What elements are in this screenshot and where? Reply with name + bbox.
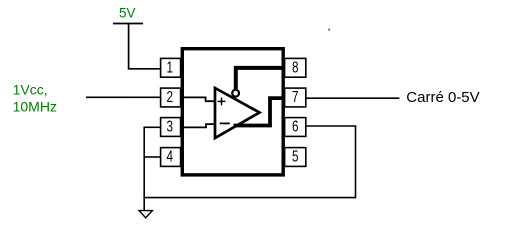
svg-text:6: 6 <box>292 119 299 136</box>
svg-text:1Vcc,: 1Vcc, <box>13 81 48 97</box>
svg-text:4: 4 <box>167 149 174 166</box>
svg-text:2: 2 <box>167 89 174 106</box>
svg-text:8: 8 <box>292 60 299 77</box>
svg-text:5: 5 <box>292 149 299 166</box>
svg-text:7: 7 <box>292 89 299 106</box>
svg-text:1: 1 <box>167 60 174 77</box>
svg-text:10MHz: 10MHz <box>13 99 57 115</box>
svg-text:Carré 0-5V: Carré 0-5V <box>406 89 479 106</box>
svg-text:3: 3 <box>167 119 174 136</box>
svg-text:5V: 5V <box>119 6 136 21</box>
